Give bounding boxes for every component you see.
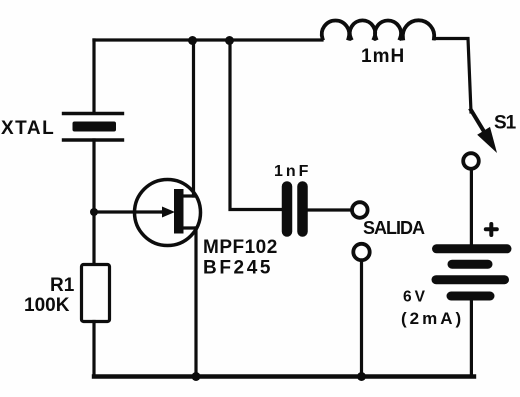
wire switch contact to battery [470,169,473,244]
svg-text:SALIDA: SALIDA [363,218,425,238]
wire R1 to bottom rail [92,322,95,377]
switch S1 fixed contact [463,153,479,169]
svg-text:1mH: 1mH [361,46,405,67]
resistor R1 [82,265,110,322]
wire top rail left (node drain/crystal) [94,38,322,41]
wire drain to top rail [192,40,195,196]
svg-text:1nF: 1nF [274,163,311,180]
wire lower terminal to bottom rail [360,261,363,377]
battery B1 6V plates [436,249,507,296]
wire left vertical middle (crystal to gate node to R1) [92,140,95,265]
svg-text:6V: 6V [403,289,428,306]
wire inductor to switch corner [434,39,471,113]
node capacitor junction on top rail [225,36,234,45]
wire left vertical top (rail to crystal) [92,40,95,113]
node drain junction on top rail [188,36,197,45]
svg-text:MPF102: MPF102 [203,237,278,258]
svg-text:BF245: BF245 [203,258,273,279]
node lower terminal junction on bottom rail [357,372,366,381]
wire top rail to capacitor [230,40,282,210]
node source junction on bottom rail [192,372,201,381]
svg-text:XTAL: XTAL [1,118,55,139]
transistor Q1 MPF102 / BF245 (JFET) [135,180,201,246]
wire gate lead [94,210,164,213]
wire capacitor to output terminal [308,208,352,211]
wire bottom rail (ground return) [94,374,474,378]
svg-text:100K: 100K [24,295,70,316]
terminal SALIDA top [352,202,368,218]
capacitor C1 1nF [287,187,303,232]
switch S1 blade arrow [471,110,497,153]
svg-text:S1: S1 [494,113,517,134]
terminal SALIDA bottom [353,244,369,260]
svg-text:(2mA): (2mA) [401,309,464,328]
inductor L1 1mH [322,20,434,38]
battery plus sign [486,224,497,235]
wire battery to bottom rail [470,301,473,377]
node gate junction [90,208,98,216]
svg-text:R1: R1 [50,275,75,296]
wire source to bottom rail [194,228,197,377]
crystal XTAL [64,114,123,141]
